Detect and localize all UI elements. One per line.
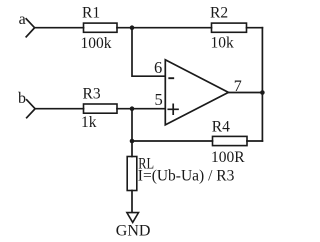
input terminal a <box>26 19 34 37</box>
wire b to R3 <box>35 108 83 110</box>
svg-text:1k: 1k <box>81 114 97 131</box>
svg-text:100R: 100R <box>211 149 245 166</box>
node C junction dot <box>130 139 135 144</box>
svg-text:10k: 10k <box>211 35 235 52</box>
resistor R2 <box>212 23 247 32</box>
svg-text:R3: R3 <box>83 85 101 102</box>
wire node B down to RL <box>131 109 133 157</box>
svg-text:R1: R1 <box>82 5 100 22</box>
svg-text:b: b <box>18 90 26 107</box>
ground <box>127 213 139 223</box>
plus sign pin 5 <box>168 104 178 114</box>
node B junction dot <box>130 106 135 111</box>
svg-text:5: 5 <box>155 90 163 109</box>
wire a to R1 <box>35 27 84 29</box>
node A junction dot <box>130 25 135 30</box>
output node junction dot <box>260 90 265 95</box>
wire RL to ground <box>131 191 133 213</box>
wire node A down to pin 6 <box>132 28 165 76</box>
resistor R4 <box>213 136 248 145</box>
wire R3 to pin 5 <box>117 108 165 110</box>
resistor R1 <box>84 23 118 32</box>
op-amp U1 <box>165 60 228 125</box>
minus sign pin 6 <box>169 77 173 79</box>
wire op-amp output <box>228 92 262 94</box>
resistor RL <box>127 157 137 191</box>
svg-text:R2: R2 <box>210 5 228 22</box>
svg-text:a: a <box>19 11 26 28</box>
svg-text:GND: GND <box>116 223 151 240</box>
wire R1 to R2 <box>117 27 212 29</box>
resistor R3 <box>84 104 118 113</box>
wire right vertical <box>261 28 263 141</box>
wire R4 to node <box>132 140 213 142</box>
svg-text:R4: R4 <box>212 119 230 136</box>
wire R2 to right corner <box>247 27 263 29</box>
svg-text:7: 7 <box>234 78 242 95</box>
input terminal b <box>27 100 35 118</box>
wire right corner to R4 <box>247 140 262 142</box>
svg-text:6: 6 <box>154 58 162 77</box>
svg-text:I=(Ub-Ua) / R3: I=(Ub-Ua) / R3 <box>138 168 235 185</box>
svg-text:100k: 100k <box>81 35 112 52</box>
